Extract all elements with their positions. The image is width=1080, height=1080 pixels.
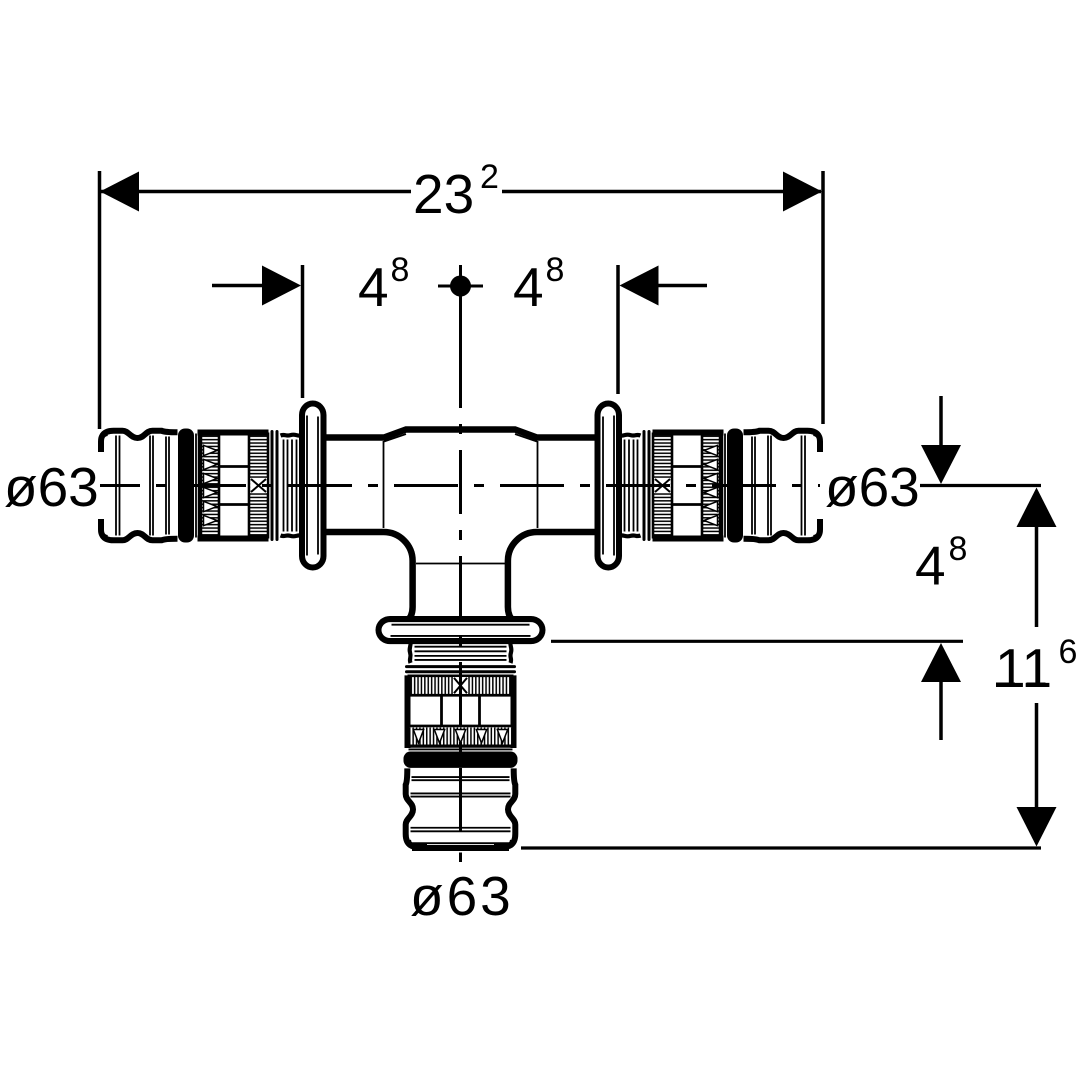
- dimension 11^6: [1017, 488, 1057, 528]
- left press end: [101, 404, 324, 568]
- svg-text:8: 8: [391, 251, 410, 289]
- svg-text:ø63: ø63: [4, 456, 99, 518]
- body seam lines: [383, 441, 385, 528]
- ramp underline thin: [384, 434, 406, 442]
- svg-text:4: 4: [915, 535, 946, 597]
- horizontal centerline: [100, 484, 820, 487]
- svg-text:6: 6: [1059, 633, 1078, 671]
- svg-text:11: 11: [995, 637, 1052, 699]
- center dot: [450, 276, 471, 297]
- bottom end chevron band (tips down): [410, 727, 512, 744]
- body top outline: [322, 430, 599, 438]
- dimension 23^2: [98, 171, 102, 429]
- right press end: [598, 404, 821, 568]
- body bottom left outline + elbow: [322, 532, 413, 622]
- dimension 4^8 right: [616, 265, 620, 394]
- svg-text:ø63: ø63: [825, 456, 920, 518]
- svg-text:8: 8: [546, 251, 565, 289]
- bottom end closed face: [412, 845, 509, 851]
- vertical centerline: [459, 398, 462, 841]
- svg-text:2: 2: [480, 158, 499, 196]
- body bottom right outline + elbow: [508, 532, 599, 622]
- right reference lines: [920, 484, 1041, 487]
- bottom press end: [379, 619, 543, 847]
- svg-text:4: 4: [513, 256, 544, 318]
- svg-text:23: 23: [413, 163, 474, 225]
- dimension 4^8 right side vertical: [939, 396, 943, 445]
- svg-text:ø63: ø63: [410, 865, 514, 927]
- svg-text:4: 4: [358, 256, 389, 318]
- dimension 4^8 left: [301, 265, 305, 398]
- svg-text:8: 8: [949, 530, 968, 568]
